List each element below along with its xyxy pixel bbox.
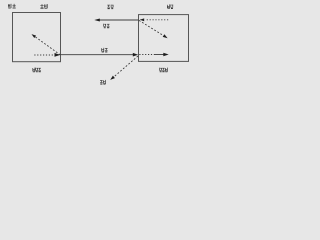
label: 투과 (top right) (167, 4, 173, 9)
left box (object A) (13, 13, 61, 62)
dashed arrow inside left box pointing right at its edge (34, 53, 60, 57)
line B: solid beam from left box to right box, y=55 (61, 53, 139, 57)
label: 흡수 (top, above left box right part) (40, 4, 47, 9)
diagonal dashed arrow inside left box (up-left) (32, 34, 61, 55)
arrow A: solid beam from right box leftward, y=20 (94, 18, 138, 21)
right box (object B) (139, 15, 189, 62)
arrow A dashed tail inside right box, arrowhead at box left edge (140, 18, 169, 21)
label: 방출 (top left) (8, 4, 16, 9)
label under arrow A (103, 24, 109, 29)
label near reflected arrow (100, 80, 106, 85)
label under left box (3 chars) (33, 68, 42, 73)
label: 반사 (top middle) (107, 5, 113, 10)
dashed arrow inside right box continuing right from edge (139, 53, 168, 57)
label above line B (101, 48, 107, 53)
label under right box (3 chars) (159, 68, 168, 73)
diagonal dashed arrow inside right box (down-right) (139, 20, 168, 38)
background (0, 0, 200, 91)
diagonal dashed arrow leaving right box bottom-left (down-left) (110, 56, 138, 80)
